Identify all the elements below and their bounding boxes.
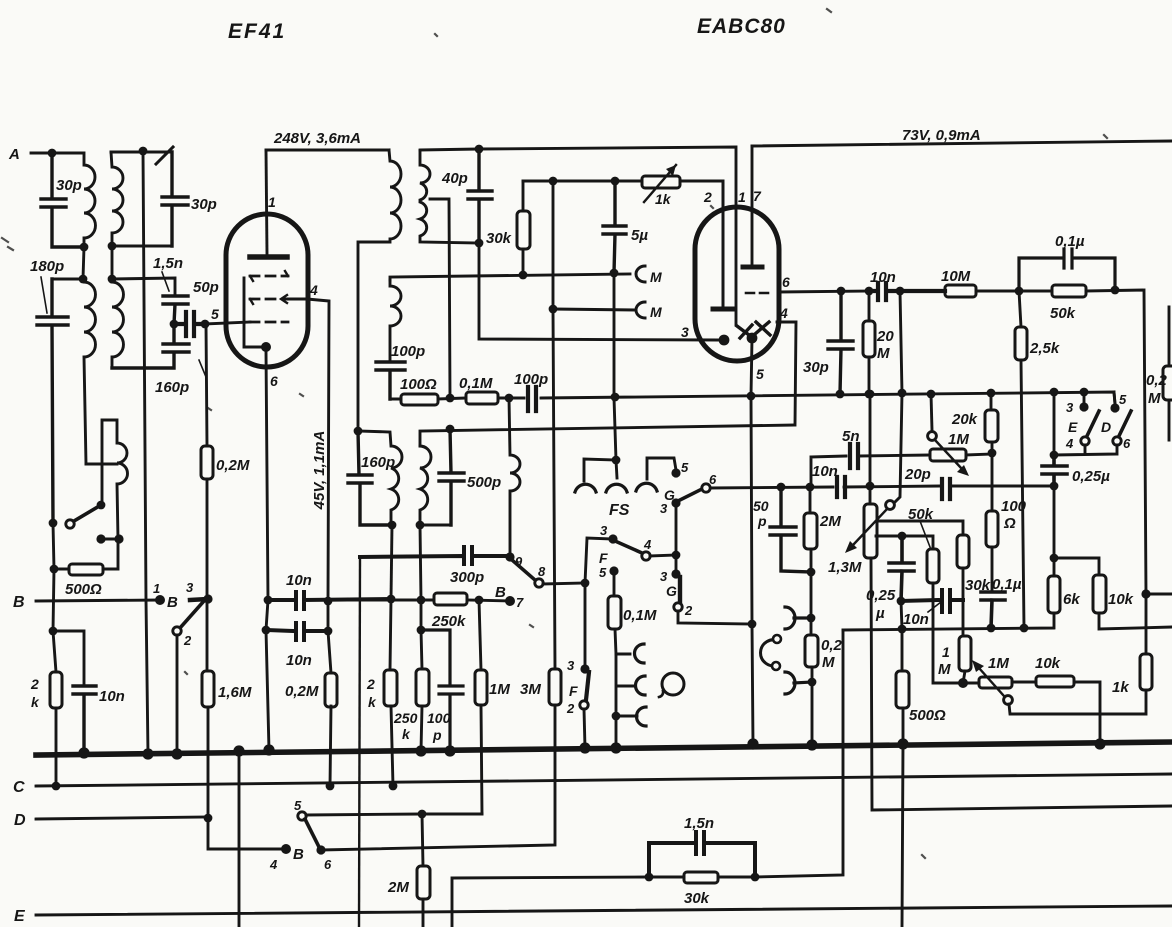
switch F pivot [608, 534, 617, 543]
node junction 266,630 [262, 626, 271, 635]
node junction 1054,558 [1050, 554, 1059, 563]
svg-text:k: k [402, 726, 411, 742]
wire tone combo right up [755, 630, 843, 877]
capacitor C 50p (det filter) [770, 487, 811, 572]
node junction 479,243 [475, 239, 484, 248]
phono pickup circle [662, 673, 684, 695]
node bus junction 239,751 [233, 745, 244, 756]
node junction 616,716 [612, 712, 621, 721]
wire bus B horizontal [36, 600, 160, 601]
wire T2 mid [111, 246, 114, 279]
node C-line junction 393,786 [389, 782, 398, 791]
node junction 553,309 [549, 305, 558, 314]
wire 1k line y=181 [523, 181, 723, 306]
svg-text:100: 100 [1001, 498, 1027, 515]
resistor R 30k (feedback) [957, 535, 969, 568]
headphone curl symbol [761, 640, 779, 666]
capacitor C 1,5n (tone) [649, 832, 755, 877]
FS bracket left [584, 459, 616, 481]
node junction 174,324 [170, 320, 179, 329]
switch blade antenna [74, 505, 101, 521]
EABC80 pin7 wire [751, 146, 754, 264]
node junction 902,629 [898, 625, 907, 634]
capacitor C 40p [468, 149, 492, 243]
svg-text:1M: 1M [489, 681, 510, 698]
svg-text:1,5n: 1,5n [153, 255, 183, 272]
node bus junction 1100,744 [1094, 738, 1105, 749]
node terminal 5 (0,1M) [609, 566, 618, 575]
capacitor C 180p [37, 279, 68, 523]
svg-text:1k: 1k [1112, 679, 1129, 696]
coil L6 (500p tank) [420, 446, 431, 525]
resistor R 10M [945, 285, 976, 297]
capacitor C 10n series (B-line) [268, 592, 390, 609]
resistor R 250k series (B-line) [434, 593, 467, 605]
EF41 grid g3 dashed [250, 275, 288, 278]
resistor R 30k (screen) [522, 181, 525, 275]
coil L2b [112, 279, 123, 368]
svg-text:C: C [13, 779, 25, 796]
node junction 752,624 [748, 620, 757, 629]
node junction 902,536 [898, 532, 907, 541]
node EF41 cathode dot [261, 342, 271, 352]
svg-text:B: B [293, 846, 304, 863]
svg-text:5: 5 [1119, 392, 1127, 407]
svg-text:F: F [569, 683, 578, 699]
node junction 870,394 [866, 390, 875, 399]
EABC80 pin4 wire [777, 322, 796, 425]
svg-text:E: E [1068, 419, 1078, 435]
EF41 grid g1 dashed [250, 321, 288, 324]
node junction 53,631 [49, 627, 58, 636]
wire F contact to 676 node [650, 555, 676, 556]
switch D top contact [1114, 392, 1115, 404]
svg-text:30p: 30p [191, 196, 217, 213]
wire F pivot left and down x=585 [585, 538, 613, 669]
resistor R 1k [1140, 654, 1152, 690]
wire y=878 tone line [452, 877, 649, 927]
capacitor C 100p series (chain) [528, 387, 536, 411]
node switch 9 [505, 552, 514, 561]
svg-text:4: 4 [309, 282, 318, 298]
wire 2M down to 0,2M [811, 572, 812, 745]
svg-text:M: M [822, 654, 835, 671]
resistor R 0,2M (headphone) [805, 635, 818, 667]
node junction 1054,455 [1050, 451, 1059, 460]
wire x=900 down to 1,3M wiper [894, 291, 902, 503]
wire 73V rail [752, 141, 1172, 146]
wire M-feed column x=553 [553, 181, 555, 669]
svg-text:300p: 300p [450, 569, 484, 586]
wire 500ohm to left rail [54, 568, 69, 571]
svg-text:G: G [664, 487, 675, 503]
node junction 1115,290 [1111, 286, 1120, 295]
potentiometer R 1M (bottom) [963, 682, 979, 685]
node junction 553,181 [549, 177, 558, 186]
node junction 422,814 [418, 810, 427, 819]
switch F2 contact circle 2 [580, 701, 588, 709]
wire 50k right [1086, 290, 1146, 594]
switch F2 pivot 3 [580, 664, 589, 673]
leader line 1,5n [162, 272, 169, 291]
capacitor C 20p series [942, 479, 950, 499]
switch B1 blade [180, 602, 203, 628]
svg-text:100: 100 [427, 710, 451, 726]
svg-text:3: 3 [681, 324, 689, 340]
coil L3b IF1 secondary [390, 280, 401, 360]
capacitor C 10n series (lower) [266, 623, 328, 640]
node B terminal 7 [505, 596, 515, 606]
wire 53,631 to 84,631 [53, 631, 84, 686]
capacitor C 0,1u (cathode) [981, 592, 1005, 628]
wire E/D switch frame [1054, 392, 1117, 455]
plug dots pair [101, 538, 119, 541]
svg-text:1M: 1M [988, 655, 1009, 672]
wire wiper to 1k column [1009, 690, 1146, 714]
capacitor C 50p series coupling [174, 312, 205, 336]
node junction 616,460 [612, 456, 621, 465]
svg-text:10n: 10n [286, 652, 312, 669]
svg-text:7: 7 [753, 188, 762, 204]
svg-text:2: 2 [566, 701, 575, 716]
wire 421,630 node [420, 600, 423, 630]
svg-text:248V, 3,6mA: 248V, 3,6mA [273, 130, 361, 147]
svg-text:B: B [13, 594, 25, 611]
wire 5n line y=456 [811, 454, 992, 487]
wire 1,3M bottom to AF line [871, 558, 1172, 810]
leader line 10n [928, 602, 941, 612]
svg-text:4: 4 [1065, 436, 1074, 451]
capacitor C 30p (right of tube) [828, 291, 853, 394]
resistor R 1M (grid AF) [959, 636, 971, 671]
svg-text:3: 3 [660, 501, 668, 516]
svg-text:2,5k: 2,5k [1029, 340, 1060, 357]
svg-text:2M: 2M [387, 879, 409, 896]
svg-text:500p: 500p [467, 474, 501, 491]
svg-text:p: p [432, 727, 442, 743]
resistor R 2M (bottom) [422, 814, 423, 927]
svg-text:3: 3 [1066, 400, 1074, 415]
svg-text:p: p [757, 513, 767, 529]
svg-text:10n: 10n [286, 572, 312, 589]
switch E contact circle 4 [1081, 437, 1089, 445]
svg-text:k: k [31, 694, 40, 710]
switch G2 pivot 3 [671, 569, 680, 578]
node junction 840,394 [836, 390, 845, 399]
jack arc right upper [785, 607, 811, 629]
svg-text:50p: 50p [193, 279, 219, 296]
node bus junction 177,754 [171, 748, 182, 759]
node bus junction 84,753 [78, 747, 89, 758]
svg-text:A: A [8, 146, 20, 163]
wire D-line extension to B terminal [208, 818, 286, 849]
wire jack column [616, 654, 637, 748]
wire EF41 pin4 grid out [284, 299, 329, 601]
coil L1b antenna secondary [83, 279, 95, 464]
capacitor C 5n [850, 444, 858, 468]
node junction 450,398 [446, 394, 455, 403]
terminal arc M (upper) [636, 266, 645, 282]
svg-text:20p: 20p [904, 466, 931, 483]
wire bus tap down 239 [238, 751, 241, 927]
svg-text:0,1M: 0,1M [459, 375, 493, 392]
svg-text:M: M [1148, 390, 1161, 407]
svg-text:1M: 1M [948, 431, 969, 448]
svg-text:0,2M: 0,2M [216, 457, 250, 474]
wire 30k tap line y=521 [877, 521, 963, 535]
svg-text:160p: 160p [361, 454, 395, 471]
potentiometer R 1,3M [864, 504, 877, 558]
switch B2 contact circle 5 [298, 812, 306, 820]
svg-text:F: F [599, 550, 608, 566]
node junction 811,572 [807, 568, 816, 577]
svg-text:250: 250 [393, 710, 418, 726]
EABC80 pin5 wire [751, 338, 753, 744]
svg-text:5n: 5n [842, 428, 860, 445]
wire tap to hook [86, 463, 117, 466]
pot 1M bottom wiper circle [1004, 696, 1013, 705]
node D-line junction 208,818 [204, 814, 213, 823]
capacitor C 30p (T2) [162, 152, 188, 246]
node junction 1146,594 [1141, 589, 1150, 598]
svg-text:1: 1 [738, 189, 746, 205]
wire 500p tank bottom bar [420, 524, 451, 527]
node B terminal 1 [155, 595, 165, 605]
capacitor C 100p shunt [421, 630, 463, 751]
wire B2 pivot to 3M column [321, 705, 555, 850]
node junction 53,523 [49, 519, 58, 528]
wire 160p tank down to B-line [391, 525, 392, 599]
capacitor C 100p (IF1 sec) [376, 362, 405, 399]
wire 10M to 50k [976, 290, 1052, 293]
svg-text:40p: 40p [441, 170, 468, 187]
resistor R 30k (tone) [649, 876, 755, 879]
switch B1 pivot [190, 599, 208, 600]
node junction 143,151 [139, 147, 148, 156]
svg-text:8: 8 [538, 564, 546, 579]
leader line 50k [920, 521, 930, 547]
svg-text:2: 2 [703, 189, 712, 205]
svg-text:5µ: 5µ [631, 227, 648, 244]
pot 1M wiper arrow [935, 440, 962, 469]
node junction 991,393 [987, 389, 996, 398]
EF41 anode bar [250, 254, 287, 260]
switch F contact circle 4 [642, 552, 650, 560]
wire stub 1146,594 right [1146, 594, 1172, 654]
node junction 205,324 [201, 320, 210, 329]
node bus junction 812,745 [806, 739, 817, 750]
svg-text:50k: 50k [908, 506, 934, 523]
svg-text:10n: 10n [812, 463, 838, 480]
svg-text:0,1M: 0,1M [623, 607, 657, 624]
jack arc J2 [636, 676, 646, 695]
svg-text:30k: 30k [486, 230, 512, 247]
svg-text:10n: 10n [99, 688, 125, 705]
svg-text:180p: 180p [30, 258, 64, 275]
node bus junction 269,750 [263, 744, 274, 755]
svg-text:100Ω: 100Ω [400, 376, 437, 393]
capacitor C 0,25u (E/D) [1042, 455, 1067, 486]
resistor R 0,2M (osc grid) [328, 631, 331, 786]
svg-text:10k: 10k [1035, 655, 1061, 672]
switch D contact circle 6 [1113, 437, 1121, 445]
node junction 869,394 [865, 390, 874, 399]
node junction 112,246 [108, 242, 117, 251]
node bus junction 616,748 [610, 742, 621, 753]
switch G1 contact circle 6 [702, 484, 710, 492]
tank circuit 500p: top node [446, 425, 455, 434]
svg-text:3: 3 [660, 569, 668, 584]
svg-text:20: 20 [876, 328, 894, 345]
svg-text:10n: 10n [903, 611, 929, 628]
node terminal dot 286,849 [281, 844, 291, 854]
svg-text:0,25: 0,25 [866, 587, 896, 604]
node junction 479,600 [475, 596, 484, 605]
svg-text:2: 2 [366, 676, 375, 692]
resistor R 0,1M (jack) [614, 571, 630, 654]
resistor R 6k [1053, 486, 1056, 576]
wire 30k bottom to 1M top [962, 568, 965, 636]
B-line middle segment [304, 600, 510, 601]
switch D blade [1118, 411, 1131, 438]
node junction 420,525 [416, 521, 425, 530]
wire 248V rail [266, 149, 389, 152]
svg-text:500Ω: 500Ω [909, 707, 946, 724]
terminal arc M (lower) [553, 302, 645, 318]
node bus junction 903,744 [897, 738, 908, 749]
node junction 869,291 [865, 287, 874, 296]
switch B2 blade [305, 819, 319, 847]
svg-text:6: 6 [709, 472, 717, 487]
resistor R 10k (bottom) [1012, 682, 1100, 744]
svg-text:10M: 10M [941, 268, 971, 285]
node junction 1054,486 [1050, 482, 1059, 491]
svg-text:6: 6 [270, 373, 278, 389]
wire T2 center tap down [143, 151, 148, 754]
switch E blade [1086, 411, 1099, 438]
svg-text:100p: 100p [514, 371, 548, 388]
svg-text:4: 4 [779, 305, 788, 321]
resistor R 50k (feedback) [927, 549, 939, 583]
svg-text:4: 4 [269, 857, 278, 872]
arrow tick on T2 [156, 147, 173, 164]
node junction 810,487 [806, 483, 815, 492]
switch 8 contact circle [535, 579, 543, 587]
capacitor C 0,25u (cathode2) [889, 536, 914, 601]
svg-text:M: M [877, 345, 890, 362]
capacitor C 0,1u bypass [1019, 249, 1115, 291]
node junction 781,487 [777, 483, 786, 492]
leader line 160p [199, 360, 206, 377]
node junction 676,555 [672, 551, 681, 560]
svg-text:1: 1 [942, 644, 950, 660]
svg-text:1: 1 [268, 194, 276, 210]
svg-text:0,1µ: 0,1µ [1055, 233, 1085, 250]
EF41 cathode [244, 278, 262, 347]
capacitor C 30p (antenna) [41, 153, 84, 247]
node junction 751,396 [747, 392, 756, 401]
wire EF41 anode pin1 [266, 150, 267, 254]
resistor R 2k (left) [53, 631, 56, 786]
FS terminal arc 3 [636, 483, 657, 491]
node bus junction 450,751 [444, 745, 455, 756]
ground bus (thick) [36, 742, 1172, 755]
wire 50k tap line y=536 [876, 536, 933, 549]
node junction 755,877 [751, 873, 760, 882]
svg-text:2: 2 [183, 633, 192, 648]
resistor R 1,6M [202, 671, 214, 707]
pot 1,3M wiper arrow [853, 509, 887, 545]
node junction 84,247 [80, 243, 89, 252]
node junction 841,291 [837, 287, 846, 296]
coil L1a antenna primary [80, 153, 95, 247]
node junction 931,394 [927, 390, 936, 399]
capacitor C 5u [603, 181, 626, 273]
wire pin4 column to cap2 node [327, 601, 330, 631]
svg-text:µ: µ [875, 605, 885, 622]
wire L1a to L1b [83, 247, 84, 279]
svg-text:B: B [495, 584, 506, 601]
node junction 268,600 [264, 596, 273, 605]
node junction 1024,628 [1020, 624, 1029, 633]
svg-text:EABC80: EABC80 [697, 15, 786, 38]
node junction 963,683 [963, 671, 965, 683]
svg-text:0,25µ: 0,25µ [1072, 468, 1110, 485]
svg-text:k: k [368, 694, 377, 710]
svg-text:2: 2 [30, 676, 39, 692]
resistor R 10k (output) [1054, 558, 1172, 629]
wire anode top rail to EABC80 pin1 [420, 147, 736, 325]
resistor R 250k [421, 630, 422, 751]
pot 1M bottom wiper arrow [979, 668, 1004, 696]
potentiometer R 1M (tone) [930, 449, 966, 461]
wire feedback line y=629 [843, 613, 1054, 630]
svg-text:0,2: 0,2 [1146, 372, 1168, 389]
node junction 615,397 [611, 393, 620, 402]
wire 40p node to EABC80 pin3 [479, 243, 718, 340]
wire x=360 column down [359, 557, 360, 927]
svg-text:5: 5 [211, 306, 219, 322]
node junction 328,631 [324, 627, 333, 636]
svg-text:10k: 10k [1108, 591, 1134, 608]
tube EF41 envelope [226, 214, 308, 367]
coil L3a IF1 primary [358, 150, 401, 431]
node junction 902,393 [898, 389, 907, 398]
node junction 391,599 [387, 595, 396, 604]
svg-text:2M: 2M [819, 513, 841, 530]
wire screen chain y=397 [390, 392, 1115, 404]
resistor R 500ohm (cathode) [901, 601, 903, 927]
svg-text:FS: FS [609, 502, 630, 519]
wire cathode pin6 down [266, 351, 269, 750]
EABC80 triode grid bar [713, 307, 733, 312]
resistor R 100ohm [991, 453, 994, 592]
node junction 870,486 [866, 482, 875, 491]
wire RC coupling line y=556 (300p) [360, 547, 510, 564]
svg-text:50k: 50k [1050, 305, 1076, 322]
switch E top contact [1079, 402, 1088, 411]
resistor R 20M [868, 291, 871, 394]
svg-text:D: D [1101, 419, 1111, 435]
EF41 grid g2 dashed [250, 298, 278, 301]
switch B2 pivot dot 6 [316, 845, 325, 854]
node junction 614,273 [610, 269, 619, 278]
node junction 1084,392 [1080, 388, 1089, 397]
node junction 523,275 [519, 271, 528, 280]
wire hook bottom to 500ohm [103, 539, 118, 569]
svg-text:M: M [938, 661, 951, 678]
resistor R 0,1M (chain) [466, 392, 498, 404]
